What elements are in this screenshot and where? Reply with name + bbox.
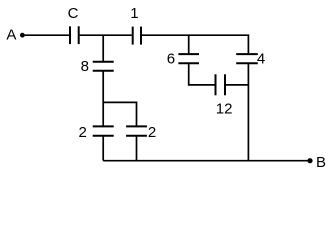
svg-text:8: 8 bbox=[81, 58, 89, 75]
svg-text:2: 2 bbox=[148, 124, 156, 141]
svg-text:12: 12 bbox=[216, 100, 233, 117]
svg-text:6: 6 bbox=[167, 51, 175, 68]
svg-text:2: 2 bbox=[79, 124, 87, 141]
svg-text:1: 1 bbox=[130, 5, 138, 22]
svg-text:A: A bbox=[6, 27, 16, 44]
svg-text:B: B bbox=[316, 154, 326, 170]
svg-text:4: 4 bbox=[257, 51, 265, 68]
svg-text:C: C bbox=[68, 5, 79, 22]
